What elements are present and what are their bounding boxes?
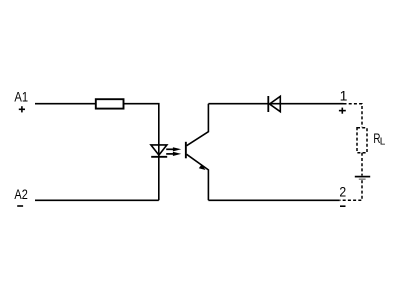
LED D1 triangle (151, 145, 167, 155)
resistor R1 (96, 99, 124, 108)
battery positive plate (355, 176, 370, 178)
dashed wire RL to battery (361, 153, 363, 176)
wire A2 (35, 199, 159, 201)
svg-text:L: L (380, 136, 386, 147)
phototransistor Q1 emitter (187, 154, 209, 200)
light arrow lower (166, 152, 181, 156)
wire A1 to resistor (35, 103, 96, 105)
diode D2 cathode bar (267, 96, 269, 112)
dashed wire terminal 1 to load (344, 104, 363, 128)
svg-text:A1: A1 (14, 89, 28, 105)
LED D1 cathode bar (151, 156, 167, 158)
phototransistor Q1 collector (187, 104, 209, 146)
wire collector to terminal 1 (208, 103, 343, 105)
terminal A2 polarity - (17, 205, 23, 207)
light arrow upper (166, 147, 181, 151)
terminal 1 polarity + (339, 108, 346, 114)
load resistor RL (dashed) (357, 128, 367, 153)
phototransistor Q1 base bar (185, 142, 187, 159)
dashed wire battery to terminal 2 (340, 180, 362, 200)
terminal A1 polarity + (19, 106, 25, 112)
svg-text:1: 1 (340, 88, 348, 104)
battery negative plate (359, 178, 366, 180)
phototransistor Q1 emitter arrow (199, 164, 206, 170)
svg-text:2: 2 (339, 183, 346, 199)
terminal 2 polarity - (340, 205, 346, 207)
wire resistor to LED branch corner (124, 104, 159, 201)
svg-text:A2: A2 (14, 186, 28, 202)
wire emitter to terminal 2 (208, 199, 339, 201)
diode D2 triangle (270, 96, 281, 111)
